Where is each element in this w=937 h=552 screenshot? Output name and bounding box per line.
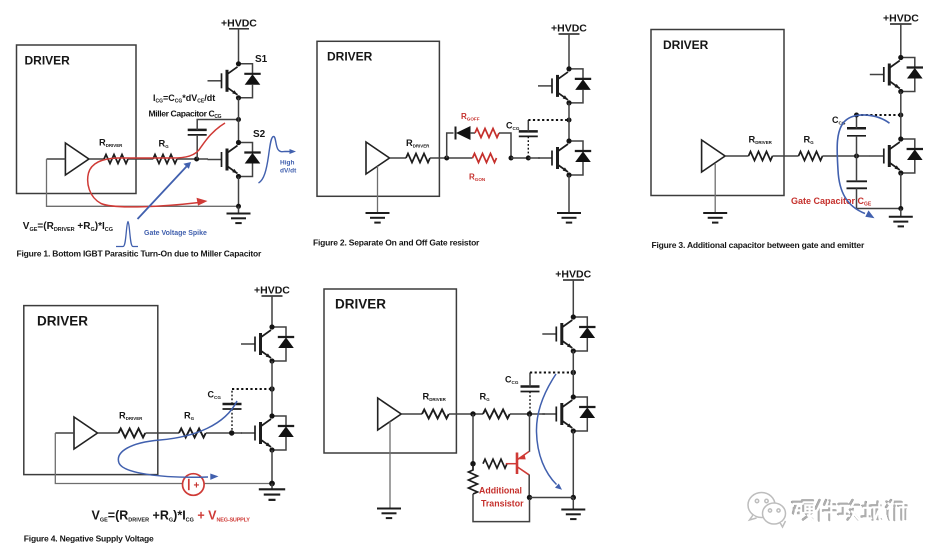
node gate	[854, 154, 859, 159]
IGBT bottom	[542, 394, 595, 433]
node bottom	[527, 495, 532, 500]
op-amp buffer U3	[702, 140, 726, 172]
op-amp buffer U1	[65, 143, 89, 175]
wire cap bottom link	[856, 136, 858, 156]
svg-text:DRIVER: DRIVER	[663, 38, 709, 52]
wire HVDC rail	[271, 296, 273, 327]
wire rail mid	[238, 98, 240, 143]
svg-text:RG: RG	[184, 411, 195, 422]
svg-text:+HVDC: +HVDC	[551, 23, 587, 35]
wire feedback to ground	[47, 159, 239, 206]
resistor RDRIVER	[104, 155, 128, 164]
wire to gate	[528, 157, 540, 159]
node gate	[527, 411, 532, 416]
dashed miller link	[530, 372, 573, 374]
svg-text:ICG=CCG*dVCE/dt: ICG=CCG*dVCE/dt	[153, 93, 215, 105]
ground right	[557, 213, 581, 223]
capacitor CGE	[847, 181, 868, 188]
IGBT bottom	[870, 136, 923, 175]
node cap dashed	[854, 113, 859, 118]
node rail dashed	[571, 370, 576, 375]
svg-text:RDRIVER: RDRIVER	[99, 138, 123, 149]
wire buffer output	[98, 432, 119, 434]
node after resistors	[509, 156, 514, 161]
wire rail mid	[271, 361, 273, 416]
node ground	[269, 481, 275, 487]
wire emitter to ground	[271, 450, 273, 484]
IGBT top	[542, 314, 595, 353]
svg-text:+HVDC: +HVDC	[555, 269, 591, 281]
wire	[146, 432, 180, 434]
wire emitter to ground	[238, 177, 240, 207]
watermark WeChat logo	[748, 493, 786, 528]
driver box	[324, 289, 456, 453]
resistor RDRIVER	[422, 410, 449, 419]
wire cap top to rail	[197, 120, 238, 130]
svg-text:RG: RG	[159, 139, 170, 150]
wire HVDC rail	[572, 280, 574, 317]
resistor base	[483, 459, 507, 468]
svg-text:dV/dt: dV/dt	[280, 168, 297, 175]
wire driver ground	[389, 422, 391, 509]
high dv/dt waveform	[259, 137, 291, 184]
wire buffer input	[47, 158, 66, 160]
voltage source VNEG	[183, 474, 205, 496]
wire branch up	[447, 133, 454, 158]
wire cap top	[527, 120, 529, 131]
svg-text:RG: RG	[480, 392, 491, 403]
wire to node	[430, 157, 473, 159]
svg-text:RDRIVER: RDRIVER	[406, 138, 430, 149]
svg-text:Gate Voltage Spike: Gate Voltage Spike	[144, 230, 207, 237]
IGBT top	[870, 55, 923, 94]
resistor RGOFF	[475, 129, 499, 138]
wire bottom to rail	[530, 497, 574, 499]
node cap tap	[526, 156, 531, 161]
capacitor CCG	[847, 128, 866, 136]
wire gate to transistor	[529, 414, 531, 452]
wire buffer output	[390, 157, 407, 159]
wire CGE bottom to emitter	[857, 188, 901, 208]
svg-text:Figure 1. Bottom IGBT Parasiti: Figure 1. Bottom IGBT Parasitic Turn-On …	[17, 249, 263, 259]
ground driver	[377, 509, 401, 519]
spike waveform	[116, 222, 138, 247]
op-amp buffer U4	[74, 417, 98, 449]
dashed miller link	[232, 388, 272, 390]
wire	[449, 413, 483, 415]
wire emitter to ground	[900, 173, 902, 209]
node split	[444, 156, 449, 161]
wire to gate	[823, 155, 871, 157]
IGBT bottom	[538, 138, 591, 177]
blue current path	[118, 401, 237, 477]
dotted cap bottom link	[527, 136, 529, 158]
wire emitter to ground	[572, 431, 574, 498]
wire HVDC rail	[568, 34, 570, 69]
wire source to ground	[204, 483, 272, 485]
driver box	[24, 306, 158, 475]
svg-text:RDRIVER: RDRIVER	[423, 392, 447, 403]
wire HVDC rail	[900, 24, 902, 58]
wire to cap node	[511, 157, 528, 159]
resistor RG	[179, 429, 206, 438]
wire to gate	[510, 413, 545, 415]
IGBT S1	[208, 61, 261, 100]
capacitor CCG	[223, 404, 242, 409]
capacitor CCG	[521, 387, 540, 392]
resistor RG	[153, 155, 177, 164]
svg-text:RGON: RGON	[469, 173, 486, 183]
resistor RDRIVER	[749, 152, 773, 161]
wire gate to CGE link	[856, 156, 858, 181]
dashed miller link	[857, 114, 901, 116]
node gate	[194, 157, 199, 162]
red miller current path	[88, 123, 225, 207]
svg-text:DRIVER: DRIVER	[335, 297, 386, 312]
node rail dashed	[567, 118, 572, 123]
svg-text:RGOFF: RGOFF	[461, 112, 480, 122]
svg-text:DRIVER: DRIVER	[327, 50, 373, 64]
ground	[271, 484, 273, 490]
wire buffer output	[725, 155, 749, 157]
svg-text:Figure 2. Separate On and Off: Figure 2. Separate On and Off Gate resis…	[313, 238, 480, 248]
blue current path	[536, 374, 556, 485]
IGBT bottom	[241, 413, 294, 452]
node rail dashed	[269, 386, 274, 391]
svg-text:Additional: Additional	[479, 486, 522, 496]
wire transistor down	[528, 475, 530, 498]
driver box	[17, 45, 137, 194]
svg-text:Figure 3. Additional capacitor: Figure 3. Additional capacitor between g…	[652, 240, 865, 250]
resistor RG	[483, 410, 510, 419]
svg-text:Transistor: Transistor	[481, 499, 524, 509]
IGBT top	[538, 66, 591, 105]
node rail dashed	[898, 113, 903, 118]
svg-text:+HVDC: +HVDC	[221, 18, 257, 30]
wire driver ground	[714, 164, 716, 213]
watermark text strokes	[792, 500, 907, 521]
svg-text:Figure 4. Negative Supply Volt: Figure 4. Negative Supply Voltage	[24, 534, 154, 544]
node rail cap tap	[236, 117, 241, 122]
node branch low	[470, 461, 475, 466]
svg-text:VGE=(RDRIVER +RG)*ICG + VNEG-S: VGE=(RDRIVER +RG)*ICG + VNEG-SUPPLY	[92, 509, 251, 524]
node branch	[470, 411, 475, 416]
ground right	[572, 498, 574, 510]
node rail bottom	[571, 495, 576, 500]
wire cap top	[529, 373, 531, 387]
IGBT top	[241, 324, 294, 363]
wire branch down	[499, 133, 511, 158]
svg-text:High: High	[280, 160, 294, 167]
svg-text:Gate Capacitor CGE: Gate Capacitor CGE	[791, 196, 872, 208]
dashed miller link	[528, 119, 569, 121]
op-amp buffer U5	[378, 398, 402, 430]
transistor Q1 collector	[518, 467, 530, 475]
svg-text:CCG: CCG	[505, 375, 519, 386]
svg-text:RG: RG	[804, 135, 815, 146]
wire HVDC rail	[238, 29, 240, 64]
transistor Q1 emitter	[518, 452, 530, 460]
ground driver	[366, 213, 390, 223]
wire buffer output	[401, 413, 422, 415]
wire rail mid	[568, 103, 570, 141]
svg-text:RDRIVER: RDRIVER	[749, 135, 773, 146]
svg-text:CCG: CCG	[208, 390, 222, 401]
svg-text:S2: S2	[253, 129, 266, 140]
svg-text:Miller Capacitor CCG: Miller Capacitor CCG	[149, 109, 222, 121]
wire cap top	[856, 115, 858, 128]
svg-text:VGE=(RDRIVER +RG)*ICG: VGE=(RDRIVER +RG)*ICG	[23, 221, 113, 233]
ground right	[900, 209, 902, 217]
driver box	[651, 30, 784, 196]
svg-text:DRIVER: DRIVER	[25, 54, 71, 68]
resistor pulldown vertical	[469, 464, 478, 494]
transistor Q1 base bar	[516, 453, 519, 475]
svg-text:RDRIVER: RDRIVER	[119, 411, 143, 422]
capacitor CCG	[519, 131, 538, 136]
node gate	[229, 430, 234, 435]
wire to gate	[206, 432, 242, 434]
wire driver ground	[377, 166, 379, 213]
blue arrow path	[837, 115, 889, 214]
svg-text:CCG: CCG	[506, 121, 520, 132]
wire	[128, 158, 153, 160]
svg-text:DRIVER: DRIVER	[37, 314, 88, 329]
wire	[773, 155, 799, 157]
node ground	[236, 204, 241, 209]
wire emitter to ground	[568, 175, 570, 213]
wire bottom loop	[473, 494, 530, 522]
wire branch down	[472, 414, 474, 464]
dotted cap bottom link	[231, 409, 233, 433]
driver box	[317, 41, 439, 196]
resistor RDRIVER	[119, 429, 146, 438]
wire buffer input	[55, 432, 74, 434]
blue arrow gate voltage spike	[138, 167, 187, 220]
dotted cap bottom link	[529, 392, 531, 415]
resistor RG	[799, 152, 823, 161]
node ground	[898, 206, 903, 211]
wire to gate	[177, 158, 208, 160]
wire rail mid	[572, 351, 574, 397]
wire feedback left	[55, 433, 182, 484]
resistor RDRIVER	[406, 154, 430, 163]
wire buffer output	[89, 158, 104, 160]
dotted cap top link	[231, 389, 233, 404]
svg-text:+: +	[194, 481, 200, 492]
ground	[238, 206, 240, 213]
resistor RGON	[473, 154, 497, 163]
wire rail mid	[900, 92, 902, 140]
diode D1	[455, 127, 457, 140]
op-amp buffer U2	[366, 142, 390, 174]
capacitor CCG (Miller)	[188, 130, 207, 135]
IGBT S2	[208, 140, 261, 179]
svg-text:+HVDC: +HVDC	[883, 13, 919, 25]
svg-text:+HVDC: +HVDC	[254, 285, 290, 297]
wire cap bottom to gate node	[196, 135, 198, 159]
ground driver	[703, 213, 727, 223]
svg-text:S1: S1	[255, 54, 268, 65]
wire to base (red)	[506, 463, 516, 465]
svg-text:CCG: CCG	[832, 115, 846, 126]
